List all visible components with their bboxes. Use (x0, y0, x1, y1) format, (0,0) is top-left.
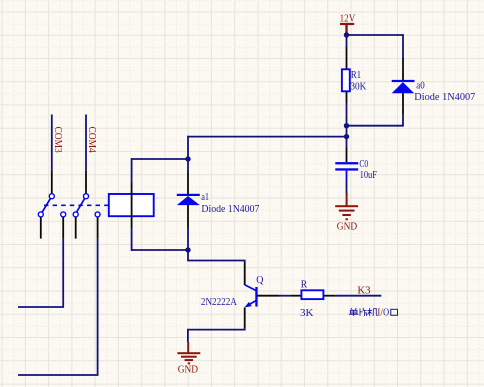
hanzi pian (360, 308, 367, 316)
svg-text:3K: 3K (300, 308, 314, 319)
wire down from horizontal (187, 136, 189, 159)
label MCU I/O port (Chinese) (349, 308, 378, 316)
svg-text:C0: C0 (359, 159, 368, 170)
junction relay loop top (185, 156, 190, 161)
wire right branch lower (402, 115, 404, 127)
wire loop bottom (347, 125, 404, 127)
resistor R1 (342, 35, 350, 126)
svg-text:R: R (301, 280, 308, 291)
svg-text:COM3: COM3 (52, 127, 63, 153)
svg-text:2N2222A: 2N2222A (201, 297, 237, 308)
hanzi dan (349, 308, 359, 316)
capacitor C0 (335, 148, 358, 194)
diode a0 Diode 1N4007 (392, 58, 415, 115)
transistor Q 2N2222A (245, 262, 258, 329)
junction relay loop bottom (185, 247, 190, 252)
relay coil K (box) (109, 158, 154, 251)
wire top loop horizontal (347, 34, 404, 36)
svg-text:Diode 1N4007: Diode 1N4007 (414, 92, 475, 103)
wire base to resistor (280, 295, 291, 297)
wire between junctions (346, 126, 348, 137)
junction to relay net (344, 134, 349, 139)
svg-text:a0: a0 (416, 80, 425, 91)
linkage dashed line to coil (44, 204, 109, 206)
svg-text:K3: K3 (357, 286, 370, 297)
ground GND at emitter (177, 342, 200, 376)
wire emitter to ground run (188, 329, 245, 342)
hanzi kou (391, 309, 398, 315)
svg-text:Diode 1N4007: Diode 1N4007 (201, 204, 259, 215)
svg-text:COM4: COM4 (86, 127, 97, 154)
junction at loop bottom (344, 123, 349, 128)
ground GND under C0 (335, 193, 358, 232)
wire horizontal to relay (188, 136, 347, 138)
wire down to capacitor (346, 137, 348, 148)
svg-text:10uF: 10uF (360, 170, 378, 181)
wire relay loop top (132, 158, 188, 160)
power port 12V (340, 14, 356, 35)
junction top (344, 32, 349, 37)
switch S1 COM3 (38, 115, 65, 239)
svg-text:a1: a1 (201, 192, 209, 203)
wire from S1 to left edge (18, 239, 63, 307)
svg-text:Q: Q (256, 275, 264, 286)
svg-text:O: O (383, 307, 389, 318)
wire right branch vertical (402, 34, 404, 58)
svg-text:GND: GND (178, 365, 199, 376)
hanzi ji (367, 308, 377, 316)
diode a1 Diode 1N4007 (177, 159, 200, 250)
resistor R (290, 290, 336, 299)
wire net K3 (336, 295, 382, 297)
wire relay loop bottom (132, 249, 188, 251)
svg-text:30K: 30K (350, 81, 366, 92)
svg-text:R1: R1 (351, 70, 362, 81)
switch S2 COM4 (73, 115, 100, 239)
wire transistor base pin (257, 295, 280, 297)
wire junction to collector (188, 250, 245, 262)
svg-text:GND: GND (337, 221, 358, 232)
wire from S2 to left edge (18, 239, 98, 375)
